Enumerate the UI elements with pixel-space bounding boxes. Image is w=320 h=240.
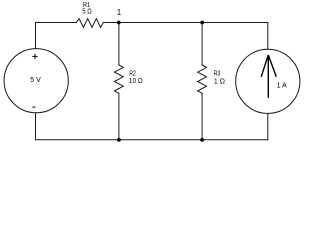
svg-text:R3: R3 — [214, 71, 221, 78]
svg-text:5 Ω: 5 Ω — [82, 8, 92, 15]
junction dot bottom R3 — [200, 138, 204, 142]
wire: R2 branch bottom — [118, 93, 120, 140]
svg-text:5 V: 5 V — [30, 77, 41, 84]
resistor R3 zigzag — [198, 65, 207, 93]
wire: top horizontal R1 to node 1 to right corner — [103, 22, 267, 24]
wire: R3 branch bottom — [201, 93, 203, 140]
voltage source plus sign — [32, 54, 37, 59]
current source arrow — [261, 55, 276, 98]
svg-text:10 Ω: 10 Ω — [129, 78, 143, 85]
junction dot bottom R2 — [117, 138, 121, 142]
wire: R2 branch top — [118, 23, 120, 66]
voltage source V1 circle — [4, 49, 68, 113]
wire: top left horizontal (corner to R1) — [36, 22, 77, 24]
wire: bottom horizontal — [36, 139, 268, 141]
node 1 junction dot — [117, 21, 121, 25]
current source I1 circle — [236, 49, 300, 113]
svg-text:R2: R2 — [129, 71, 136, 78]
wire: left vertical top (corner to V source) — [35, 23, 37, 49]
junction dot top R3 — [200, 21, 204, 25]
wire: left vertical bottom (V source to corner) — [35, 113, 37, 140]
svg-text:1 Ω: 1 Ω — [214, 78, 225, 85]
resistor R1 zigzag — [76, 19, 103, 28]
wire: R3 branch top — [201, 23, 203, 66]
wire: right vertical bottom (I source to corner) — [267, 113, 269, 140]
resistor R2 zigzag — [114, 65, 123, 93]
svg-text:1: 1 — [117, 8, 122, 17]
wire: right vertical top (corner to I source) — [267, 23, 269, 50]
voltage source minus sign — [32, 106, 35, 108]
svg-text:1 A: 1 A — [277, 82, 287, 89]
